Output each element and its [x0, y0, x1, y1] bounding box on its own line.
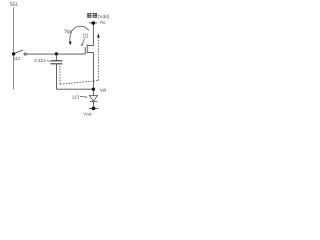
svg-text:PSL: PSL [100, 20, 106, 25]
svg-text:113: 113 [72, 95, 80, 100]
svg-text:111: 111 [83, 34, 89, 40]
Vgs arc arrowhead [69, 42, 72, 46]
transistor 111 source stub [87, 53, 93, 90]
cathode terminal bar [89, 107, 98, 109]
svg-text:112: 112 [14, 56, 21, 61]
capacitor C111 [55, 55, 57, 61]
dashed bootstrap path bottom horizontal [60, 81, 98, 85]
wire capacitor bottom to source node [57, 88, 94, 90]
wire diode to cathode terminal [92, 102, 94, 109]
dashed bootstrap path left vertical [59, 66, 61, 85]
wire SGL vertical signal line [13, 7, 15, 89]
cathode terminal dot [92, 107, 96, 111]
switch 112 junction dot [12, 52, 15, 55]
Vgs arc arrow [70, 26, 89, 42]
power terminal dot [92, 21, 96, 25]
label 電源(Vdd) kanji 源 [93, 13, 97, 18]
EL diode 113 triangle [89, 96, 97, 102]
dashed bootstrap path right vertical [97, 37, 99, 80]
node Vel dot [92, 88, 95, 91]
svg-text:Vcat: Vcat [83, 111, 92, 116]
transistor 111 drain stub [87, 23, 93, 46]
svg-text:SGL: SGL [10, 2, 18, 8]
label C111 leader [47, 61, 50, 62]
transistor 111 gate bar [84, 47, 86, 54]
label 113 leader arrow [80, 96, 86, 99]
switch 112 arm [14, 50, 23, 53]
power terminal bar PSL [89, 22, 98, 24]
wire gate line horizontal [26, 53, 85, 55]
label 電源(Vdd) kanji 電 [87, 13, 91, 18]
transistor 111 channel bar [86, 45, 88, 54]
svg-text:Vel: Vel [100, 87, 107, 92]
label 111 leader arrow [82, 39, 84, 45]
wire node to diode [92, 90, 94, 96]
node gate junction dot [55, 52, 58, 55]
svg-text:(Vdd): (Vdd) [98, 14, 110, 20]
svg-text:C111: C111 [34, 58, 46, 63]
switch 112 contact circle [24, 53, 26, 55]
dashed path arrowhead [97, 33, 100, 37]
EL diode 113 cathode bar [90, 101, 97, 103]
